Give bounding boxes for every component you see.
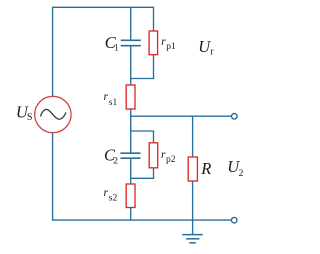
label r_p2 (161, 149, 176, 165)
terminal: lower right (231, 217, 237, 223)
capacitor C2 (120, 153, 140, 158)
resistor r_p1 (149, 31, 158, 55)
svg-text:p2: p2 (166, 155, 176, 165)
wire: junction 2 bottom horizontal (130, 177, 154, 179)
resistor r_s1 (126, 85, 135, 109)
svg-text:r: r (104, 91, 109, 103)
wire: C1 top stem (130, 7, 132, 40)
svg-text:r: r (104, 187, 109, 199)
wire: middle node horizontal to output terminal (130, 115, 231, 117)
wire: r_p1 top stem (153, 7, 155, 31)
label U_2 (227, 157, 243, 179)
svg-text:s1: s1 (109, 98, 118, 108)
voltage source sine symbol (41, 109, 67, 119)
wire: r_s2 bottom stem (130, 208, 132, 221)
svg-text:S: S (27, 112, 33, 123)
wire: left vertical (source branch upper) (52, 7, 54, 97)
wire: C2 bottom stem (130, 158, 132, 178)
wire: bottom rail (53, 219, 232, 221)
svg-text:p1: p1 (166, 42, 176, 52)
resistor r_s2 (126, 184, 135, 208)
wire: r_s1 top stem (130, 79, 132, 86)
ground (182, 220, 203, 243)
wire: C2 top stem (130, 131, 132, 153)
wire: r_p2 top stem (153, 131, 155, 143)
label C2 (104, 146, 118, 167)
label R (200, 159, 211, 178)
label C1 (105, 33, 119, 54)
svg-text:2: 2 (113, 157, 118, 167)
svg-text:r: r (210, 47, 214, 58)
wire: left vertical (source branch lower) (52, 133, 54, 221)
terminal: upper right (232, 114, 238, 120)
svg-text:s2: s2 (109, 194, 118, 204)
wire: r_p1 bottom stem (153, 55, 155, 79)
capacitor C1 (121, 40, 141, 45)
wire: junction 1 horizontal (130, 78, 154, 80)
label r_s1 (104, 91, 118, 108)
wire: r_s1 bottom stem (130, 109, 132, 116)
wire: top rail (53, 6, 154, 8)
wire: r_p2 bottom stem (153, 168, 155, 179)
voltage source U_S circle (35, 96, 71, 132)
wire: R branch bottom stem (192, 181, 194, 220)
resistor r_p2 (149, 143, 158, 168)
label r_s2 (104, 187, 118, 204)
label U_S (16, 103, 33, 123)
wire: junction 2 top horizontal (130, 130, 154, 132)
wire: r_s2 top stem (130, 178, 132, 184)
label U_r (198, 37, 214, 58)
svg-text:1: 1 (114, 43, 119, 53)
wire: C1 bottom stem (130, 46, 132, 79)
wire: R branch top stem (192, 116, 194, 157)
label r_p1 (161, 36, 176, 52)
svg-text:R: R (200, 159, 211, 178)
resistor R (188, 157, 197, 181)
wire: middle node down stem (130, 116, 132, 131)
svg-text:2: 2 (239, 169, 244, 179)
